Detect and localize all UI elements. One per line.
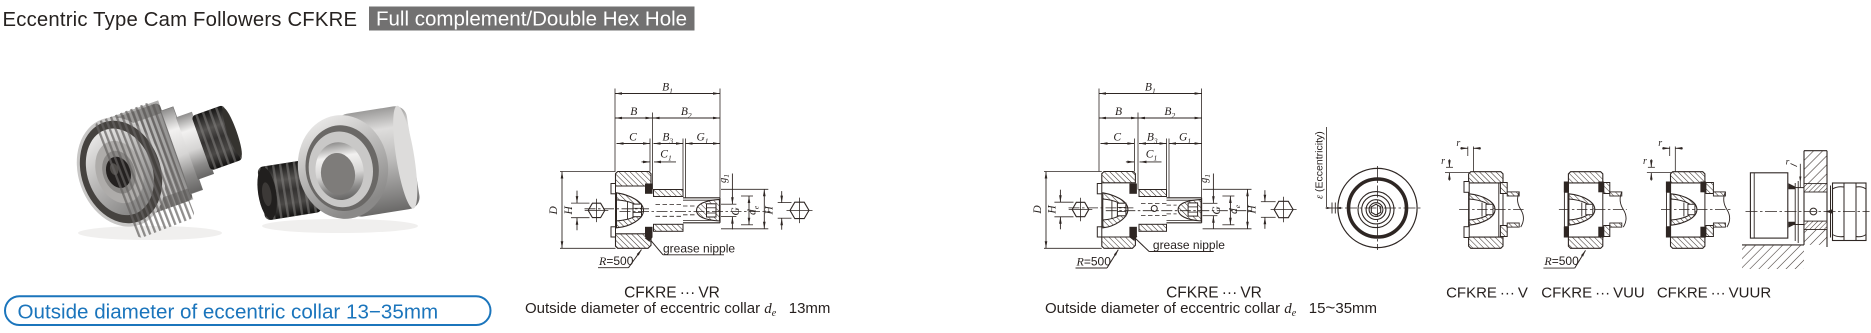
collar sections right [1500, 183, 1507, 194]
right hexagon across-flats arrows [778, 202, 792, 204]
outer ring OD [1338, 168, 1417, 247]
right hex hole [1188, 203, 1198, 216]
outer ring top section [1469, 172, 1503, 183]
svg-text:Outside diameter of eccentric: Outside diameter of eccentric collar 13−… [18, 300, 439, 323]
svg-text:H: H [763, 206, 775, 216]
svg-text:CFKRE ··· VR: CFKRE ··· VR [1166, 285, 1262, 302]
thread minor diameter dashed lines [683, 205, 695, 207]
shaft stub with collar bands and break [1507, 192, 1519, 196]
left hex hole end view [588, 203, 605, 217]
svg-text:C1: C1 [660, 148, 671, 162]
outer ring bottom section [1469, 237, 1503, 248]
svg-text:R=500: R=500 [598, 254, 634, 268]
r dimension (side chamfer) [1446, 166, 1453, 168]
dimension B [1099, 117, 1138, 119]
svg-text:H: H [563, 206, 575, 216]
svg-text:G: G [730, 207, 742, 216]
dimension g1 [731, 174, 733, 205]
svg-text:G1: G1 [696, 132, 708, 146]
hex nut [1833, 183, 1867, 241]
outer ring bottom section (hatched) [616, 234, 652, 249]
dimension G1 [686, 143, 721, 145]
collar circle [1358, 192, 1394, 228]
grease nipple symbol [1130, 233, 1138, 241]
break line [1620, 192, 1626, 227]
svg-text:D: D [548, 206, 560, 216]
svg-text:B3: B3 [1147, 132, 1158, 146]
side plate [1564, 182, 1569, 193]
dimension G (thread) [1212, 216, 1214, 229]
dimension B3 [1139, 143, 1167, 145]
grease hole [1151, 206, 1157, 212]
right hexagon across-flats arrows [1261, 201, 1276, 203]
eccentricity dimension [1331, 203, 1333, 214]
dimension D with extension lines [560, 171, 616, 173]
outer ring bottom section (hatched) [1102, 237, 1136, 248]
right hex hole dome (section) [697, 199, 720, 221]
svg-text:CFKRE ··· V: CFKRE ··· V [1446, 285, 1528, 302]
outer ring top section [1568, 172, 1602, 183]
dimension B2 [653, 117, 721, 119]
side plate (left washer) [1097, 184, 1102, 194]
svg-text:de: de [1228, 204, 1242, 214]
dimension H (left hex across flats) [571, 202, 590, 204]
eccentricity label [1326, 127, 1328, 207]
svg-text:g1: g1 [1199, 174, 1212, 183]
dimension H (left hex across flats) [1054, 201, 1073, 203]
center lines (eccentric axes) [585, 208, 650, 210]
center lines (eccentric axes) [1069, 207, 1134, 209]
svg-text:r: r [1786, 158, 1790, 168]
outer ring top section [1671, 172, 1705, 183]
right column between ring and collar [1598, 182, 1604, 193]
svg-text:r: r [1658, 138, 1662, 149]
svg-text:grease nipple: grease nipple [1153, 238, 1225, 252]
stud head dome (cross-section) [1103, 193, 1128, 228]
outer ring side band [1349, 179, 1407, 237]
thread engagement bottom [1804, 221, 1827, 229]
threaded stud portion [1167, 197, 1202, 199]
hex hole inside dome [633, 204, 642, 217]
dimension B3 [654, 143, 684, 145]
svg-text:H: H [1046, 205, 1058, 215]
shaft stub with collar bands and break [1713, 192, 1725, 196]
break line [1518, 192, 1524, 227]
rib texture overlay [93, 101, 195, 239]
center line [1746, 211, 1870, 213]
eccentric collar top section (hatched) [1139, 190, 1167, 197]
seal edges [1788, 183, 1795, 189]
thread minor diameter dashed lines [1167, 204, 1177, 206]
svg-text:B3: B3 [662, 132, 673, 146]
dimension C1 (arrows outside) [1126, 161, 1135, 163]
subtitle badge [369, 7, 695, 31]
svg-text:Outside diameter of eccentric: Outside diameter of eccentric collar de … [525, 300, 830, 319]
stud head dome (cross-section) [617, 193, 644, 228]
side plate (left washer) [611, 184, 616, 194]
right hex hole [707, 204, 717, 217]
dimension g1 [1212, 174, 1214, 204]
dimension de (eccentric collar OD) [1222, 195, 1234, 197]
collar inner circle [1362, 195, 1391, 224]
svg-text:B: B [630, 106, 637, 118]
svg-text:R=500: R=500 [1076, 255, 1112, 269]
svg-text:Full complement/Double Hex Hol: Full complement/Double Hex Hole [376, 8, 687, 31]
floor (hatched) [1742, 245, 1804, 269]
stud shaft dashed thread lines [656, 204, 684, 206]
thread circle [1369, 203, 1383, 217]
right hex hole end view [790, 202, 809, 218]
svg-text:B2: B2 [1164, 106, 1175, 120]
dimension G (thread) [731, 217, 733, 230]
svg-text:Eccentric Type Cam Followers C: Eccentric Type Cam Followers CFKRE [3, 9, 358, 31]
stud head dome [1469, 194, 1495, 225]
thread engagement top [1804, 184, 1827, 192]
svg-text:r: r [1441, 156, 1445, 167]
right column between ring and collar [1498, 183, 1500, 237]
svg-text:C: C [629, 132, 637, 144]
seal rings (black) [1129, 184, 1137, 194]
svg-text:R=500: R=500 [1543, 254, 1579, 268]
stud head dome [1671, 194, 1697, 225]
center cross lines [1377, 166, 1379, 250]
outer ring bottom section [1568, 237, 1602, 248]
grease hole in stud [1810, 208, 1817, 215]
stud head dome [1569, 194, 1595, 225]
r dimension (side chamfer) [1648, 166, 1655, 168]
svg-text:H: H [1247, 205, 1259, 215]
svg-text:G: G [1211, 206, 1223, 215]
stud flange between roller and wall [1788, 187, 1804, 189]
hex hole front [1371, 204, 1380, 215]
svg-text:D: D [1032, 205, 1044, 215]
side plate [1666, 182, 1671, 193]
stud shaft dashed thread lines [1141, 203, 1167, 205]
stud circle [1366, 200, 1386, 220]
side plate [1464, 182, 1469, 193]
dimension B2 [1138, 117, 1202, 119]
dimension C [617, 143, 651, 145]
center line [1559, 209, 1627, 211]
eccentric collar bottom section (hatched) [654, 224, 684, 231]
right column between ring and collar [1700, 182, 1706, 193]
dimension H (right, stud height) [1203, 188, 1252, 190]
machine wall (hatched) [1804, 151, 1827, 245]
outer ring top section (hatched) [616, 172, 652, 187]
eccentric collar top section (hatched) [654, 190, 684, 197]
dimension B1 [615, 93, 720, 95]
hex hole inside dome [1117, 203, 1126, 216]
break line [1724, 192, 1730, 227]
blue callout pill [5, 296, 491, 325]
svg-text:C1: C1 [1146, 148, 1157, 162]
dome inner bore [617, 200, 640, 221]
extension lines for dimensions [614, 89, 616, 172]
svg-text:r: r [1456, 138, 1460, 149]
center line [1459, 209, 1524, 211]
grease nipple symbol [645, 234, 653, 242]
extension lines for dimensions [1098, 89, 1100, 172]
right hex hole dome (section) [1178, 199, 1201, 221]
right cam follower photo [248, 104, 422, 232]
dimension B [615, 117, 653, 119]
dimension D with extension lines [1044, 171, 1102, 173]
dimension C1 (arrows outside) [642, 161, 651, 163]
grease nipple leader and label [649, 238, 663, 255]
svg-text:Outside diameter of eccentric: Outside diameter of eccentric collar de … [1045, 298, 1377, 319]
dimension B1 [1099, 93, 1202, 95]
r dimension (top chamfer) [1467, 147, 1469, 157]
svg-text:ε (Eccentricity): ε (Eccentricity) [1314, 131, 1326, 199]
outer ring bottom section [1671, 237, 1705, 248]
svg-text:C: C [1113, 132, 1121, 144]
dimension de (eccentric collar OD) [741, 195, 753, 197]
seal rings (black) [645, 184, 653, 194]
svg-text:grease nipple: grease nipple [663, 241, 735, 255]
left cam follower photo [62, 78, 255, 239]
roller (side view) [1750, 173, 1787, 238]
svg-text:B: B [1115, 106, 1122, 118]
shaft stub with collar bands and break [1610, 192, 1622, 196]
svg-text:CFKRE ··· VR: CFKRE ··· VR [624, 285, 720, 302]
eccentric collar bottom section (hatched) [1139, 224, 1167, 231]
svg-text:r: r [1643, 156, 1647, 167]
collar sections right [1604, 183, 1610, 194]
svg-text:B2: B2 [681, 106, 692, 120]
center line [1661, 209, 1730, 211]
r dimension (top chamfer) [1669, 147, 1671, 157]
right hex hole end view [1274, 201, 1293, 217]
left hex hole end view [1072, 202, 1089, 216]
dimension H (right, stud height) [721, 188, 768, 190]
washer against wall [1830, 186, 1832, 238]
svg-text:B1: B1 [662, 82, 673, 96]
dimension G1 [1169, 143, 1202, 145]
collar sections right [1706, 183, 1714, 194]
svg-text:de: de [747, 205, 761, 215]
svg-text:G1: G1 [1179, 132, 1191, 146]
dimension C [1101, 143, 1135, 145]
photo shadows [78, 226, 222, 240]
dome inner bore [1103, 199, 1124, 220]
svg-text:B1: B1 [1145, 82, 1156, 96]
threaded stud portion [683, 197, 720, 199]
svg-text:CFKRE ··· VUUR: CFKRE ··· VUUR [1657, 285, 1771, 302]
outer ring top section (hatched) [1102, 172, 1136, 183]
svg-text:CFKRE ··· VUU: CFKRE ··· VUU [1541, 285, 1645, 302]
